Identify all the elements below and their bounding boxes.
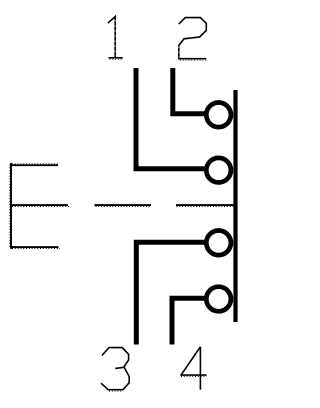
- pin label 1: [108, 17, 123, 60]
- center line dash B: [176, 204, 234, 206]
- pin label 2: [179, 18, 207, 61]
- pin 1 lead wire: [136, 68, 208, 169]
- actuator bracket top arm: [10, 164, 58, 166]
- center line dash A: [95, 204, 152, 206]
- pin 4 lead wire: [172, 298, 208, 344]
- contact circle pin 1: [206, 158, 231, 183]
- pin label 3: [101, 348, 129, 392]
- pin 3 lead wire: [136, 242, 207, 344]
- contact circle pin 4 (bottom): [206, 287, 231, 312]
- pin label 4: [180, 347, 206, 390]
- actuator bracket vertical: [10, 163, 12, 249]
- contact circle pin 3: [206, 231, 231, 256]
- contact circle pin 2 (top): [206, 103, 231, 128]
- common contact rail: [233, 90, 237, 322]
- actuator bracket middle arm: [10, 204, 68, 206]
- actuator bracket bottom arm: [10, 246, 58, 248]
- pin 2 lead wire: [173, 68, 208, 114]
